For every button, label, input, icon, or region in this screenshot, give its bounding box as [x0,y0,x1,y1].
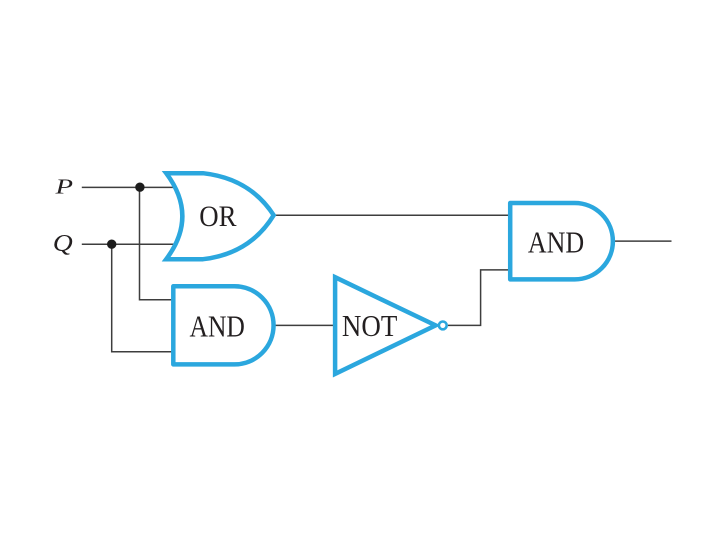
svg-text:AND: AND [190,310,245,344]
svg-text:Q: Q [53,231,73,257]
svg-text:P: P [54,175,73,199]
svg-text:NOT: NOT [342,309,398,343]
svg-text:OR: OR [199,200,236,233]
svg-text:AND: AND [528,226,584,260]
